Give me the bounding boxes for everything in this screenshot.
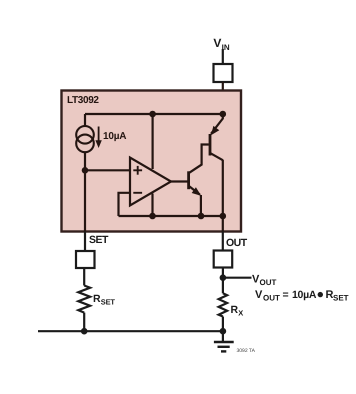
pin pad OUT <box>214 251 233 268</box>
wire SET line to pad <box>84 232 86 252</box>
svg-text:=: = <box>283 289 289 301</box>
wire SET line inside box <box>84 170 86 231</box>
label RSET <box>93 293 115 307</box>
IC box U1 LT3092 <box>62 91 242 232</box>
wire op-amp output to Q2 base <box>171 180 188 182</box>
svg-text:OUT: OUT <box>263 294 280 303</box>
op-amp plus marking <box>133 166 142 175</box>
node VIN label <box>213 36 229 52</box>
wire current source top stub <box>84 114 86 127</box>
svg-text:SET: SET <box>333 294 349 303</box>
transistor Q1 emitter with arrow <box>211 114 223 135</box>
label RX <box>231 304 244 318</box>
ground symbol <box>214 331 234 351</box>
svg-text:3092 TA: 3092 TA <box>237 348 256 354</box>
svg-text:10µA: 10µA <box>292 289 317 301</box>
wire OUT pad to VOUT node <box>222 268 224 294</box>
wire minus input feedback <box>119 193 131 216</box>
svg-text:10µA: 10µA <box>103 131 126 142</box>
wire SET pad to RSET <box>83 268 85 286</box>
svg-text:R: R <box>93 293 101 305</box>
junction dot RSET / ground rail <box>81 328 88 335</box>
svg-text:X: X <box>238 309 243 318</box>
junction dot bottom rail / OUT line <box>220 213 227 220</box>
junction dot RX / ground rail <box>220 328 227 335</box>
node VOUT label <box>252 274 277 288</box>
wire RSET to ground rail <box>83 313 85 332</box>
wire RX to ground rail <box>222 317 224 332</box>
transistor Q1 collector <box>210 153 222 160</box>
resistor RX <box>219 293 228 316</box>
svg-text:V: V <box>213 36 221 50</box>
wire VOUT tap <box>223 277 252 279</box>
op-amp A1 <box>130 158 171 206</box>
wire OUT line to pad <box>222 232 224 251</box>
svg-text:OUT: OUT <box>226 237 248 249</box>
svg-text:OUT: OUT <box>260 278 277 287</box>
op-amp minus marking <box>133 192 142 194</box>
wire OUT line inside box <box>222 160 224 232</box>
svg-text:V: V <box>255 289 263 301</box>
junction dot top rail / VIN line <box>220 111 227 118</box>
transistor Q2 collector to Q1 base <box>189 145 209 173</box>
svg-text:LT3092: LT3092 <box>67 95 99 106</box>
wire amp negative supply <box>151 194 153 217</box>
current source I1 <box>76 126 94 152</box>
junction dot top rail / amp supply <box>149 111 156 118</box>
junction dot bottom rail / Q2 emitter <box>198 213 205 220</box>
svg-text:SET: SET <box>101 298 116 307</box>
junction dot VOUT tap <box>220 274 227 281</box>
formula VOUT = 10uA * RSET <box>255 289 349 303</box>
wire bottom rail <box>119 215 223 217</box>
transistor Q2 emitter <box>189 186 201 216</box>
junction dot bottom rail / amp supply <box>149 213 156 220</box>
pin pad SET <box>76 251 95 268</box>
wire VIN pad to IN rail <box>222 82 224 114</box>
transistor Q1 base bar <box>209 134 212 156</box>
transistor Q2 base bar <box>187 171 190 189</box>
resistor RSET <box>78 286 90 313</box>
wire plus input <box>85 169 130 171</box>
wire VIN stub <box>222 49 224 64</box>
wire bottom ground rail <box>38 330 223 332</box>
svg-text:SET: SET <box>89 234 109 246</box>
wire amp positive supply <box>152 114 154 169</box>
junction dot SET line / plus input <box>82 167 89 174</box>
pin pad VIN <box>214 64 233 82</box>
svg-text:R: R <box>231 304 239 316</box>
arrow 10uA direction <box>95 127 101 149</box>
wire current source bottom stub <box>84 152 86 170</box>
wire top rail <box>85 113 223 115</box>
